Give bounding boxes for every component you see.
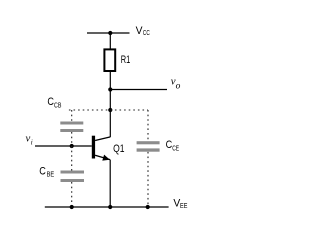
svg-text:o: o [176,81,181,91]
capacitor CCB [60,122,83,133]
wire R1 to collector [109,71,111,137]
node VEE junction right [146,205,150,209]
svg-text:BE: BE [47,172,55,179]
wire dashed CBE top lead [71,146,73,171]
wire output [110,89,167,91]
resistor R1 [104,49,115,71]
capacitor CBE [61,171,85,183]
svg-text:R1: R1 [121,54,131,66]
wire dashed CCE top lead [147,110,149,141]
wire VCC rail [87,32,130,34]
svg-text:Q1: Q1 [113,143,124,155]
capacitor CCE [137,141,160,152]
node VCC junction [108,31,112,35]
wire input vi [35,145,92,147]
svg-text:CB: CB [54,103,62,110]
wire dashed horizontal CCB to CCE [69,109,148,111]
node VEE junction left [70,205,74,209]
svg-text:CC: CC [143,30,150,37]
svg-text:i: i [31,139,33,147]
wire dashed CCB top lead [71,110,73,122]
wire emitter to VEE rail [109,160,111,207]
node input junction [70,144,74,148]
svg-text:C: C [39,166,46,178]
wire VCC to R1 [109,33,111,50]
wire dashed CBE bottom lead [71,182,73,207]
svg-text:CE: CE [172,146,179,153]
node base-net junction [108,108,112,112]
wire dashed CCB bottom lead [71,132,73,146]
wire dashed CCE bottom lead [147,152,149,207]
node output junction [108,87,112,91]
svg-text:v: v [26,132,31,144]
node VEE junction middle [108,205,112,209]
svg-text:EE: EE [180,203,188,210]
transistor Q1 [92,136,111,161]
wire VEE rail [45,206,169,208]
